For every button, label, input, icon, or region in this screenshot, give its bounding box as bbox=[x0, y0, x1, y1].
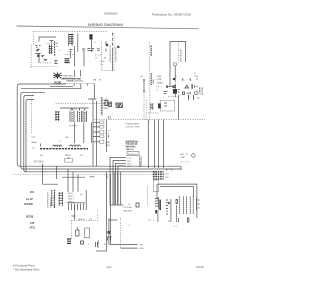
small comp bbox=[136, 203, 139, 207]
svg-text:a8 b8 c8: a8 b8 c8 bbox=[70, 109, 79, 111]
svg-text:18 AWG WIRE: 18 AWG WIRE bbox=[125, 123, 139, 126]
relay marks above triangle bbox=[182, 79, 198, 81]
svg-text:DMP: DMP bbox=[181, 157, 186, 159]
bracket above labels bbox=[167, 169, 173, 171]
harness dark strip bbox=[52, 190, 55, 209]
cabinet outer box bbox=[17, 84, 181, 170]
svg-text:TECX38: TECX38 bbox=[24, 204, 33, 206]
svg-text:AIR: AIR bbox=[181, 153, 185, 156]
icemaker connector bar bbox=[49, 44, 53, 54]
svg-text:TSTAT: TSTAT bbox=[157, 82, 164, 85]
harness drop wires right bbox=[148, 120, 163, 168]
adc box bbox=[127, 152, 139, 156]
bottom corner wires bbox=[107, 245, 138, 251]
svg-text:* Non-Illustrated Parts: * Non-Illustrated Parts bbox=[13, 268, 40, 272]
svg-text:SEC08: SEC08 bbox=[26, 217, 34, 219]
dashed link to relay bbox=[148, 112, 160, 114]
motor coil dark blob bbox=[89, 34, 92, 39]
thermistor pin list bbox=[166, 200, 168, 214]
left dash column bbox=[145, 100, 147, 120]
stack tick row bbox=[164, 92, 168, 94]
pin comb bbox=[69, 204, 84, 211]
lamp dashed stub bbox=[95, 54, 101, 56]
harness vertical label top bbox=[150, 46, 152, 57]
freezer door switch line bbox=[112, 33, 114, 48]
svg-text:T8 COND: T8 COND bbox=[123, 207, 132, 209]
main dashed harness run bbox=[94, 119, 205, 121]
junction wire bbox=[167, 86, 173, 88]
start relay row bbox=[183, 92, 191, 95]
small rect under labels bbox=[65, 159, 73, 163]
interior connector strips bbox=[70, 111, 74, 122]
extra dark strip bbox=[179, 197, 181, 215]
svg-text:P6 P5 P4: P6 P5 P4 bbox=[69, 125, 79, 127]
mid dashes right of stack bbox=[106, 131, 112, 134]
coil left mark bbox=[40, 144, 42, 147]
run capacitor symbol bbox=[192, 84, 193, 89]
svg-text:GRN: GRN bbox=[100, 61, 105, 63]
terminal strip row bbox=[40, 148, 88, 150]
bus drop wires to compressor bbox=[57, 166, 79, 192]
wire from connector right bbox=[157, 184, 197, 218]
small bits bbox=[81, 241, 84, 244]
bottom left vertical wire bbox=[108, 218, 110, 245]
adc wires to left turning down bbox=[110, 158, 126, 206]
freezer harness dashed run bbox=[56, 103, 105, 105]
svg-text:DEF SENSOR: DEF SENSOR bbox=[180, 48, 182, 62]
svg-text:53048H1N: 53048H1N bbox=[104, 12, 117, 16]
interior left pin block bbox=[55, 111, 60, 121]
bottom run wire bbox=[96, 250, 106, 252]
capacitor dark blob bbox=[173, 89, 177, 94]
icemaker switch blade bbox=[37, 49, 40, 51]
compressor motor circle bbox=[194, 91, 198, 95]
svg-text:[2B]: [2B] bbox=[106, 145, 110, 147]
wire run y88.7 bbox=[21, 88, 81, 90]
svg-text:COMPRESSOR: COMPRESSOR bbox=[48, 192, 50, 208]
defrost heater coil arcs bbox=[53, 145, 63, 147]
svg-text:11/13: 11/13 bbox=[196, 265, 204, 269]
bracket contact pair dark bbox=[65, 59, 70, 63]
svg-text:# Functional Parts: # Functional Parts bbox=[13, 264, 35, 268]
svg-text:AT31: AT31 bbox=[30, 226, 36, 229]
svg-text:DEFROST: DEFROST bbox=[128, 154, 139, 156]
svg-text:FAN MTR: FAN MTR bbox=[123, 209, 132, 212]
dotted wire y83.6 bbox=[57, 83, 94, 85]
svg-text:[2A]: [2A] bbox=[106, 141, 110, 144]
svg-text:890 E: 890 E bbox=[65, 155, 71, 157]
svg-text:BLK 1: BLK 1 bbox=[68, 193, 74, 195]
svg-text:-19-: -19- bbox=[106, 265, 112, 269]
long verticals to bottom bbox=[107, 172, 111, 251]
header rule bbox=[17, 26, 200, 29]
cabinet box 4 light bbox=[26, 100, 34, 172]
dark relay block bbox=[158, 103, 161, 108]
lower wires bbox=[158, 199, 177, 222]
dotted row top bbox=[46, 43, 57, 45]
lead bottom marks bbox=[55, 61, 58, 64]
damper dashes bbox=[181, 161, 190, 163]
rotated text strips bbox=[184, 197, 187, 215]
module dark marks bbox=[69, 35, 74, 44]
relay boxes stack bbox=[93, 121, 104, 143]
svg-text:EVAP FAN: EVAP FAN bbox=[63, 75, 73, 78]
coil lead bbox=[91, 40, 93, 53]
fresh food section top ticks bbox=[189, 95, 194, 99]
svg-text:GRN: GRN bbox=[139, 248, 144, 250]
svg-text:BLK: BLK bbox=[195, 76, 199, 78]
tick pair bbox=[44, 58, 47, 61]
hood dashed sense line bbox=[177, 43, 179, 63]
lower feed wire bbox=[62, 176, 85, 178]
bottom dashes bbox=[168, 96, 180, 98]
wire drops from module bbox=[71, 46, 85, 77]
vertical from relay bbox=[177, 95, 179, 120]
blade upper ticks bbox=[35, 46, 40, 48]
harness end marks bbox=[105, 101, 108, 106]
ruler connector line bbox=[101, 97, 102, 116]
run capacitor cluster bbox=[166, 78, 180, 97]
compressor side line bbox=[85, 190, 87, 210]
cap extra mark bbox=[194, 85, 197, 88]
svg-text:Publication No. 5995573758: Publication No. 5995573758 bbox=[152, 13, 191, 17]
verticals mid bbox=[114, 172, 121, 205]
dashed vertical bbox=[70, 221, 72, 240]
lamp wire bbox=[71, 205, 75, 220]
contacts row bbox=[69, 50, 72, 52]
lamp bracket comp bbox=[76, 227, 80, 236]
T drops on dotted wire bbox=[74, 84, 88, 89]
small sq components mid bbox=[109, 102, 112, 107]
lamp dashed vertical upper bbox=[97, 210, 99, 222]
svg-text:RED 3: RED 3 bbox=[68, 199, 75, 201]
cabinet box 3 bbox=[24, 96, 157, 172]
top right hood wire bbox=[170, 42, 186, 87]
relay enclosure box bbox=[160, 100, 174, 111]
svg-text:WIRING DIAGRAM: WIRING DIAGRAM bbox=[88, 22, 123, 27]
connector feed line bbox=[60, 108, 89, 111]
svg-text:THERMAL CUTOUT 8a: THERMAL CUTOUT 8a bbox=[66, 80, 84, 83]
cabinet interior dashed harness bbox=[13, 174, 157, 176]
dashed vertical near control bbox=[146, 186, 148, 206]
svg-text:A-LLP: A-LLP bbox=[26, 198, 33, 201]
wires below compressor bbox=[189, 95, 194, 100]
connector underline bbox=[67, 202, 85, 204]
drop junction dots bbox=[42, 166, 43, 167]
hatch squares bbox=[116, 103, 122, 108]
svg-text:MAIN: MAIN bbox=[152, 78, 155, 84]
evaporator fan motor starburst bbox=[53, 72, 62, 79]
freezer door dashed box bbox=[102, 33, 114, 71]
wire joint below adc bbox=[110, 204, 123, 206]
svg-text:COLOR CODE: COLOR CODE bbox=[125, 126, 140, 128]
temp control connector bbox=[155, 197, 159, 209]
cabinet box 2 bbox=[21, 92, 181, 169]
drop wires from connectors bbox=[75, 123, 92, 144]
svg-text:KIT WH1: KIT WH1 bbox=[34, 161, 44, 164]
svg-text:LAMP: LAMP bbox=[31, 141, 37, 144]
defrost sensor wire bbox=[143, 79, 145, 91]
cabinet left wire drop bbox=[43, 164, 58, 184]
center second vertical bbox=[106, 120, 108, 152]
defrost timer marks bbox=[150, 103, 153, 110]
harness vertical label lower bbox=[150, 73, 152, 85]
svg-text:8AA 120V: 8AA 120V bbox=[126, 148, 134, 151]
door jamb marks bbox=[106, 44, 108, 46]
cond heater coil arcs bbox=[70, 145, 81, 147]
svg-text:MOTOR: MOTOR bbox=[202, 87, 204, 95]
ticks next to strips bbox=[197, 198, 200, 210]
compressor connector block bbox=[58, 192, 63, 206]
bottom dashed vertical bbox=[120, 218, 122, 248]
bus tick marks bbox=[90, 175, 108, 178]
ice maker module columns bbox=[69, 34, 73, 47]
svg-text:AT3: AT3 bbox=[30, 222, 35, 225]
side ticks bbox=[178, 90, 180, 93]
pin list box bbox=[176, 200, 177, 204]
small box on hood wire bbox=[174, 63, 177, 66]
svg-text:LIGHT SWITCH: LIGHT SWITCH bbox=[115, 47, 117, 62]
icemaker switch bar bbox=[35, 53, 41, 63]
svg-text:WHT 2: WHT 2 bbox=[68, 196, 75, 198]
control board connector dark pins bbox=[153, 172, 164, 179]
module side line bbox=[77, 34, 79, 53]
svg-text:COLD: COLD bbox=[157, 76, 163, 78]
bottom left dashed stub bbox=[71, 220, 96, 222]
svg-text:FREEZER DOOR: FREEZER DOOR bbox=[110, 45, 112, 62]
user interface box bbox=[153, 180, 158, 192]
top dark chunk bbox=[173, 78, 175, 80]
icemaker compartment dashed box bbox=[30, 31, 108, 69]
right harness dashed vertical bbox=[149, 42, 151, 122]
contact marks bbox=[42, 56, 45, 57]
dark mark bbox=[155, 210, 157, 214]
mold heater dashed lead bbox=[54, 41, 56, 56]
dark pin connector bbox=[67, 239, 71, 243]
aux box bbox=[85, 228, 90, 238]
small marks left of p1 bbox=[96, 242, 98, 247]
interior connector strip 2 bbox=[78, 111, 82, 122]
right edge bits bbox=[105, 42, 107, 52]
damper motor circle bbox=[192, 154, 196, 158]
wire run y86 bbox=[50, 85, 73, 87]
svg-text:UI BD: UI BD bbox=[152, 176, 158, 178]
dash stub bbox=[40, 62, 52, 64]
icemaker inner box corner bbox=[39, 37, 56, 44]
icemaker dark square bbox=[37, 55, 39, 57]
center long vertical wire bbox=[88, 84, 97, 167]
wire down from box bbox=[174, 66, 176, 82]
svg-text:CTRL: CTRL bbox=[157, 79, 163, 81]
freezer light dotted lead bbox=[30, 101, 32, 134]
temp control dark bar bbox=[159, 200, 161, 211]
fan wavy marks bbox=[54, 82, 61, 84]
second wire to sensors bbox=[160, 187, 194, 197]
overload triangle bbox=[185, 85, 189, 88]
dots row bbox=[65, 53, 73, 55]
interior connector strip 3 bbox=[83, 111, 87, 122]
